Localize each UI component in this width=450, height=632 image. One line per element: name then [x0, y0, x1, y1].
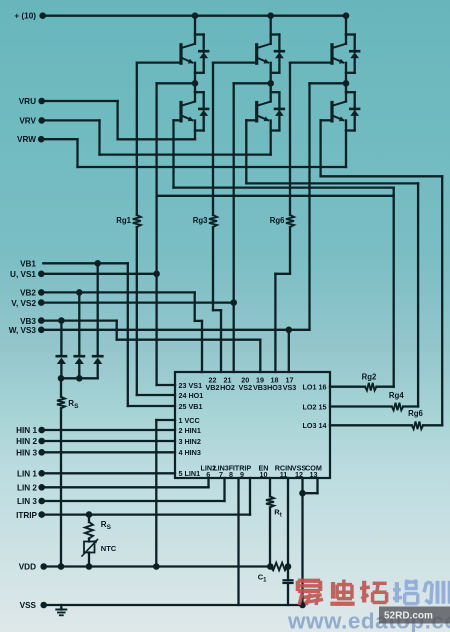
svg-text:Rg4: Rg4 — [389, 391, 404, 400]
svg-text:HIN 1: HIN 1 — [16, 426, 37, 435]
svg-text:HO3: HO3 — [267, 383, 282, 392]
svg-text:VRU: VRU — [19, 97, 36, 106]
svg-text:VB1: VB1 — [20, 260, 36, 269]
svg-text:25 VB1: 25 VB1 — [179, 402, 203, 411]
svg-text:VRV: VRV — [19, 116, 36, 125]
svg-text:ITRIP: ITRIP — [16, 511, 37, 520]
svg-text:Rg2: Rg2 — [362, 373, 377, 382]
svg-text:52RD.com: 52RD.com — [384, 611, 433, 622]
svg-text:Rg6: Rg6 — [408, 409, 423, 418]
svg-text:LIN 1: LIN 1 — [17, 470, 37, 479]
svg-text:VSS: VSS — [20, 601, 37, 610]
svg-text:V, VS2: V, VS2 — [11, 299, 36, 308]
svg-text:U, VS1: U, VS1 — [10, 270, 36, 279]
svg-text:5 LIN1: 5 LIN1 — [179, 469, 201, 478]
svg-text:3 HIN2: 3 HIN2 — [179, 437, 201, 446]
svg-text:W, VS3: W, VS3 — [9, 326, 37, 335]
svg-text:12: 12 — [295, 470, 303, 479]
svg-text:Rg3: Rg3 — [193, 216, 208, 225]
svg-text:LIN 3: LIN 3 — [17, 497, 37, 506]
svg-text:24 HO1: 24 HO1 — [179, 391, 204, 400]
svg-text:13: 13 — [310, 470, 318, 479]
svg-text:4 HIN3: 4 HIN3 — [179, 448, 201, 457]
svg-text:HIN 3: HIN 3 — [16, 449, 37, 458]
svg-text:HIN 2: HIN 2 — [16, 437, 37, 446]
svg-text:VS3: VS3 — [283, 383, 297, 392]
svg-text:VB3: VB3 — [253, 383, 267, 392]
svg-text:7: 7 — [219, 470, 223, 479]
svg-text:VB2: VB2 — [206, 383, 220, 392]
svg-text:1 VCC: 1 VCC — [179, 416, 200, 425]
svg-text:VS2: VS2 — [239, 383, 253, 392]
svg-text:10: 10 — [260, 470, 268, 479]
svg-text:LO2 15: LO2 15 — [303, 402, 327, 411]
svg-text:2 HIN1: 2 HIN1 — [179, 426, 201, 435]
svg-text:HO2: HO2 — [220, 383, 235, 392]
svg-text:LIN 2: LIN 2 — [17, 484, 37, 493]
svg-text:Rg6: Rg6 — [270, 216, 285, 225]
svg-text:+ (10): + (10) — [14, 12, 36, 21]
svg-text:9: 9 — [240, 470, 244, 479]
svg-text:VRW: VRW — [17, 135, 36, 144]
svg-text:VDD: VDD — [19, 563, 36, 572]
svg-text:NTC: NTC — [101, 544, 117, 553]
svg-text:LO1 16: LO1 16 — [303, 383, 327, 392]
svg-text:6: 6 — [206, 470, 210, 479]
svg-text:VB2: VB2 — [20, 289, 36, 298]
svg-text:LO3 14: LO3 14 — [303, 421, 327, 430]
svg-text:VB3: VB3 — [20, 317, 36, 326]
svg-text:Rg1: Rg1 — [116, 216, 131, 225]
svg-text:23 VS1: 23 VS1 — [179, 381, 203, 390]
svg-text:11: 11 — [280, 470, 288, 479]
